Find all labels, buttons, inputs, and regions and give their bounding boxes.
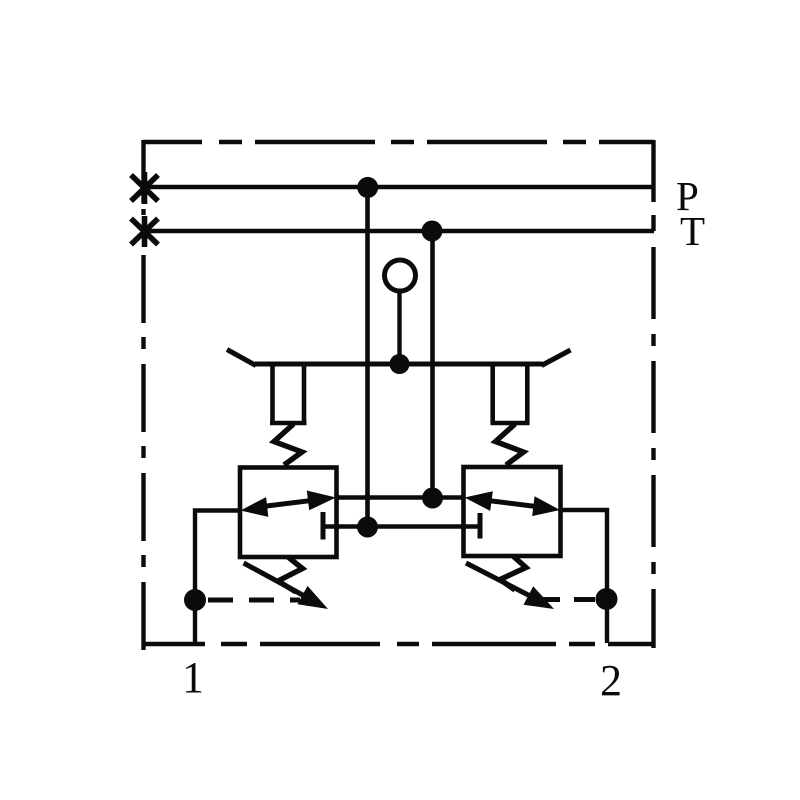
control lever knob xyxy=(385,260,416,291)
pilot sense line between valves xyxy=(323,524,480,528)
left valve pilot tee bar xyxy=(321,512,326,540)
right valve flow arrow head (right) xyxy=(532,496,560,516)
right valve outlet wire to port 2 xyxy=(561,510,608,643)
enclosure border right small dash xyxy=(651,215,655,231)
left valve flow arrow head (right) xyxy=(307,491,336,511)
enclosure border left small dash xyxy=(141,209,145,215)
svg-text:2: 2 xyxy=(600,656,622,705)
enclosure border top xyxy=(143,140,654,144)
left pressure reducing valve body V1 xyxy=(240,468,337,558)
left valve flow arrow head (left) xyxy=(241,497,269,517)
right pressure reducing valve body V2 xyxy=(464,467,561,556)
enclosure border left top solid segment xyxy=(141,140,145,203)
P supply line xyxy=(144,185,654,190)
right valve return spring xyxy=(500,556,526,590)
svg-text:T: T xyxy=(680,208,705,254)
junction dot on P line xyxy=(357,177,378,198)
junction dot where T drop meets inter-valve line xyxy=(422,488,443,509)
left valve adjustment arrow shaft xyxy=(244,563,310,599)
enclosure border right top solid segment xyxy=(651,140,655,202)
lever right wing xyxy=(542,350,571,366)
right valve flow arrow shaft xyxy=(476,499,548,508)
enclosure border bottom xyxy=(143,642,654,646)
right valve adjustment arrow head xyxy=(524,586,555,609)
pilot wire from T junction down xyxy=(430,231,435,498)
left valve flow arrow shaft xyxy=(252,499,322,508)
right valve pilot tee bar xyxy=(478,513,483,539)
junction dot on T line xyxy=(422,221,443,242)
plugged port X on P line xyxy=(131,172,158,204)
right pusher plunger xyxy=(491,364,530,423)
junction dot where P drop meets pilot sense line xyxy=(357,517,378,538)
left valve outlet wire to port 1 xyxy=(195,511,240,645)
port 1 junction dot xyxy=(184,589,206,611)
T return line xyxy=(144,229,654,233)
left valve return spring xyxy=(278,557,303,592)
right valve flow arrow head (left) xyxy=(465,491,493,511)
right drain line dashed xyxy=(536,597,595,602)
enclosure border left chain dashed xyxy=(141,255,145,650)
lever left wing xyxy=(227,350,256,366)
svg-text:1: 1 xyxy=(182,653,204,702)
lever cross bar xyxy=(255,362,543,367)
port 2 junction dot xyxy=(596,588,618,610)
left valve adjustment arrow head xyxy=(298,586,329,609)
pilot wire from P junction down xyxy=(365,187,370,527)
inter-valve line to T drop xyxy=(337,495,465,499)
plugged port X on T line xyxy=(131,216,158,247)
left plunger spring xyxy=(274,424,302,465)
left drain line dashed xyxy=(208,598,300,603)
enclosure border right chain dashed xyxy=(651,247,655,648)
left pusher plunger xyxy=(270,364,307,423)
right valve adjustment arrow shaft xyxy=(466,563,536,599)
lever pivot dot xyxy=(390,354,410,374)
right plunger spring xyxy=(496,424,524,465)
control lever stem xyxy=(397,291,401,364)
